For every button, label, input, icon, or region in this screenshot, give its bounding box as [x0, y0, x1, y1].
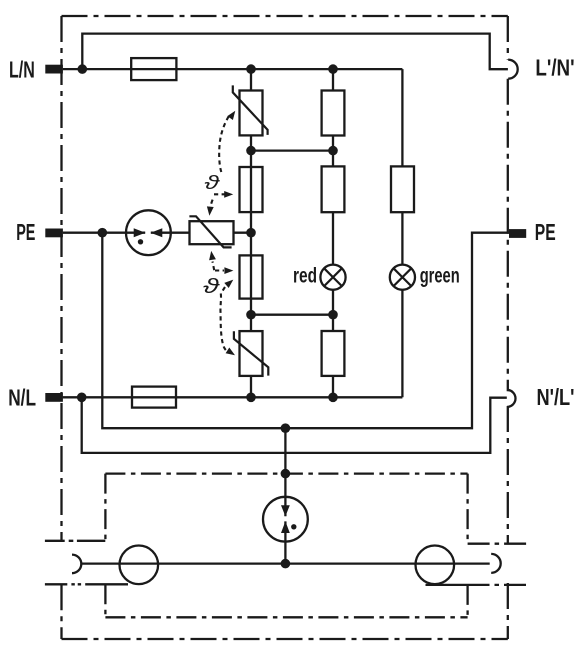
dashed arrow theta1 to varistor RV1 [219, 116, 229, 173]
svg-text:L/N: L/N [9, 57, 35, 83]
feed-through channel line left upper [45, 540, 106, 542]
fuse F1 on L/N [131, 58, 176, 80]
wire column B (indicator chain) [332, 69, 334, 397]
current transformer ring left [120, 546, 159, 585]
junction J1 column A [246, 146, 256, 156]
dashed arrow theta2 to varistor RV3 [213, 262, 215, 271]
wire column C (green lamp chain) [401, 69, 403, 397]
feed-through channel line right lower [426, 584, 527, 586]
trigger dot of spark gap U1 [138, 239, 143, 244]
wire N/L input line [63, 396, 403, 398]
wire row J2 [251, 314, 333, 316]
resistor R3 column B [322, 331, 345, 376]
svg-text:PE: PE [535, 219, 556, 245]
junction L/N at border [78, 64, 88, 74]
inner monitoring-unit dash-dot box top [105, 472, 467, 474]
arrowhead to TD1 [224, 191, 233, 198]
svg-text:red: red [293, 265, 317, 288]
varistor RV3 horizontal on PE [189, 216, 233, 247]
wire row J1 [251, 149, 333, 151]
terminal arc bottom-left feed-through [72, 555, 81, 574]
junction L/N column A [246, 64, 256, 74]
arrowhead to RV3 upper [207, 206, 214, 215]
thermal disconnector TD1 column A [240, 167, 263, 212]
svg-text:PE: PE [16, 219, 35, 245]
wire inner top link from L/N to L'/N' [82, 34, 508, 70]
arrowhead to TD2 horizontal [224, 267, 233, 274]
junction N/L column A [246, 393, 256, 403]
dashed arrow theta2 to varistor RV2 [220, 294, 228, 353]
svg-text:ϑ: ϑ [204, 173, 220, 194]
wire L/N input line [63, 68, 403, 70]
svg-text:L'/N': L'/N' [535, 55, 574, 81]
svg-text:N/L: N/L [8, 384, 36, 410]
wire PE bypass to PE' [102, 233, 509, 429]
enclosure dash-dot border top [62, 15, 508, 17]
terminal block PE right [509, 229, 526, 238]
inner monitoring-unit dash-dot box right [466, 474, 468, 618]
arrowhead to RV3 lower [209, 251, 216, 260]
wire main feed-through conductor [81, 562, 489, 564]
trigger dot of isolating spark gap U2 [291, 524, 296, 529]
svg-text:N'/L': N'/L' [537, 384, 575, 410]
thermal disconnector TD2 column A [240, 255, 263, 298]
junction N/L at border [77, 393, 87, 403]
inner monitoring-unit dash-dot box bottom [105, 616, 467, 618]
feed-through channel line right upper [468, 543, 527, 545]
arrows of spark gap U1 [134, 228, 163, 237]
terminal arc N'/L' [507, 390, 516, 407]
lamp green indicator [390, 265, 415, 290]
lamp red indicator [320, 265, 345, 290]
terminal block PE left [45, 229, 63, 238]
wire N/L bypass to N'/L' [82, 397, 507, 453]
junction L/N column B [328, 64, 338, 74]
arrowhead to TD2 diagonal [224, 280, 233, 288]
junction J1 column B [328, 146, 338, 156]
arrows of isolating spark gap U2 [281, 505, 290, 533]
terminal block N/L [45, 393, 63, 402]
dashed arrow theta2 to disconnector TD2 [215, 269, 224, 271]
svg-text:ϑ: ϑ [203, 275, 220, 298]
wire through spark gap U1 [126, 232, 171, 234]
enclosure dash-dot border bottom [62, 638, 508, 640]
wire PE line left [63, 232, 251, 234]
dashed arrow theta1 to disconnector TD1 [214, 193, 225, 195]
junction center at inner box [281, 469, 291, 479]
spark gap circle U1 on PE [126, 210, 171, 255]
junction N/L column B [328, 393, 338, 403]
terminal block L/N [45, 65, 63, 74]
junction PE at border [98, 228, 108, 238]
junction J2 column B [328, 310, 338, 320]
thermal monitor arrows theta-1 group [210, 116, 230, 353]
fuse F2 on N/L [132, 387, 176, 408]
resistor R1 column B [322, 91, 345, 136]
arrowhead to RV1 [227, 111, 235, 120]
terminal arc L'/N' [508, 60, 517, 79]
terminal arc bottom-right feed-through [491, 554, 501, 573]
varistor RV2 bottom of column A [234, 331, 268, 376]
dashed arrow theta1 to varistor RV3 [210, 200, 213, 212]
feed-through channel line left lower [45, 583, 128, 585]
inner monitoring-unit dash-dot box left [104, 474, 106, 618]
svg-text:green: green [420, 265, 460, 288]
wire center PE equipotential [284, 428, 286, 563]
junction PE column A [246, 228, 256, 238]
enclosure dash-dot border right [507, 16, 509, 639]
enclosure dash-dot border left [60, 16, 62, 639]
junction PE bypass center [281, 423, 291, 433]
dashed arrow theta2 branch to TD2 [221, 287, 225, 294]
resistor R2 column B [322, 166, 345, 212]
arrowhead to RV2 [226, 348, 235, 356]
isolating spark gap U2 circle [263, 497, 308, 542]
junction J2 column A [246, 310, 256, 320]
wire column A (varistor chain) [250, 69, 252, 397]
resistor R4 column C [391, 166, 414, 212]
junction center at feed-through conductor [281, 559, 291, 569]
varistor RV1 top of column A [233, 85, 268, 135]
current transformer ring right [416, 546, 455, 585]
